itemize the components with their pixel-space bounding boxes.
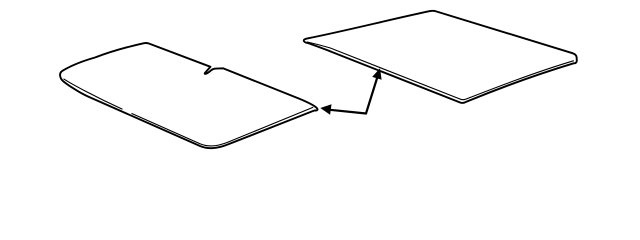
right panel (load floor) outer outline [304,11,577,103]
arrowhead pointing at right panel [372,68,381,80]
left panel (cargo cover) outer outline [60,43,317,148]
leader arrow shaft (bent) [330,74,379,114]
arrowhead pointing at left panel tip [320,104,331,114]
right panel top-surface front edge inner line [307,42,574,100]
left panel thickness inner line (left segment) [64,79,123,110]
left panel thickness inner line (right segment) [132,107,314,146]
